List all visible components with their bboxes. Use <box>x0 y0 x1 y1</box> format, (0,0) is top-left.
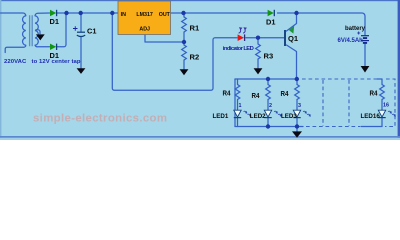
junction node ADJ / R1 / R2 <box>182 40 186 44</box>
resistor R2 <box>182 45 187 60</box>
branch 2 R4 top lead <box>267 79 269 85</box>
svg-text:D1: D1 <box>50 17 59 26</box>
resistor R4 branch3 <box>295 85 300 100</box>
transistor Q1 emitter arrow (PNP, pointing into base) <box>289 26 294 34</box>
wire transformer primary bottom to 220VAC terminal <box>5 45 26 52</box>
LED2 emission arrows <box>274 111 281 115</box>
LED1 symbol <box>234 110 241 117</box>
transformer T1 primary winding <box>23 16 26 45</box>
svg-text:D1: D1 <box>266 18 275 27</box>
junction node rectified rail / D1 bottom <box>64 11 68 15</box>
dashed right edge <box>385 79 395 127</box>
svg-text:LM317: LM317 <box>136 12 153 18</box>
ground arrow at center tap <box>36 34 45 40</box>
battery BT1 plus mark <box>357 32 360 35</box>
transformer T1 core <box>30 15 33 46</box>
diode D1 bottom rectifier <box>50 44 57 50</box>
wire battery negative down to ground <box>364 44 366 67</box>
svg-text:R4: R4 <box>370 89 378 98</box>
wire D1 bottom output up to rectified node <box>58 13 67 47</box>
junction node R1 top <box>181 11 185 15</box>
svg-text:R2: R2 <box>190 53 200 62</box>
LED16 symbol <box>378 110 385 117</box>
branch 16 LED16 to bottom rail <box>361 118 382 127</box>
ground arrow below C1 <box>77 68 86 74</box>
capacitor C1 plus mark <box>73 26 78 30</box>
indicator LED emission arrows <box>239 29 246 33</box>
junction node branch3 top <box>295 77 299 81</box>
svg-text:R4: R4 <box>252 91 260 100</box>
diode D1 series to battery <box>268 10 275 16</box>
junction node branch2 bottom <box>266 124 270 128</box>
junction node R3 / LED / base <box>256 36 260 40</box>
svg-text:LED2: LED2 <box>250 113 266 120</box>
dashed bottom rail <box>306 126 360 128</box>
junction node branch3 bottom / ground <box>295 124 299 128</box>
LED3 symbol <box>293 110 300 117</box>
wire R3 bottom to ground arrow <box>257 59 259 68</box>
resistor R1 <box>182 17 187 32</box>
LED2 symbol <box>264 110 271 117</box>
branch 16 R4 to LED16 lead <box>381 100 383 111</box>
regulator U1 LM317 body <box>118 1 171 35</box>
branch 1 R4 top lead <box>237 79 239 85</box>
svg-text:C1: C1 <box>87 27 96 36</box>
capacitor C1 <box>77 32 85 36</box>
LED16 emission arrows <box>388 111 395 115</box>
branch 2 LED2 to bottom rail <box>267 118 269 127</box>
indicator LED (red) <box>238 34 245 41</box>
svg-text:6V/4.5Ah: 6V/4.5Ah <box>338 38 364 44</box>
transformer T1 secondary winding <box>35 16 38 45</box>
dashed branch column B <box>348 80 350 126</box>
wire secondary bottom to diode D1 bottom <box>35 45 50 47</box>
resistor R4 branch1 <box>235 85 240 100</box>
wire LM317 OUT rail to battery corner <box>171 12 268 14</box>
junction node Q1 collector rail <box>294 11 298 15</box>
svg-text:simple-electronics.com: simple-electronics.com <box>33 113 167 125</box>
svg-text:R4: R4 <box>281 89 289 98</box>
branch 1 LED1 to bottom rail <box>237 118 239 127</box>
svg-text:OUT: OUT <box>159 12 171 18</box>
ground arrow below R3 <box>254 68 263 74</box>
svg-text:ADJ: ADJ <box>139 27 150 33</box>
svg-text:indicator LED: indicator LED <box>223 46 254 52</box>
wire R3 top lead <box>257 38 259 44</box>
svg-text:LED1: LED1 <box>213 113 229 120</box>
svg-text:battery: battery <box>345 26 366 32</box>
wire LM317 ADJ pin down and right to R1/R2 junction <box>145 35 184 43</box>
svg-text:LED16: LED16 <box>361 113 381 120</box>
svg-text:IN: IN <box>121 12 126 18</box>
wire rectified rail D1 to LM317 IN <box>58 12 119 14</box>
diode D1 top rectifier <box>50 10 57 16</box>
dashed top rail <box>302 78 377 80</box>
junction node C1 tap <box>79 11 83 15</box>
dashed continuation of LED array enclosure <box>302 79 395 127</box>
border frame <box>0 0 400 1</box>
svg-text:Q1: Q1 <box>288 34 299 43</box>
branch 3 R4 top lead <box>296 79 298 85</box>
LED1 emission arrows <box>244 111 251 115</box>
svg-text:R3: R3 <box>264 52 274 61</box>
svg-text:R1: R1 <box>190 24 200 33</box>
LED array box solid bottom-left rail <box>235 126 303 128</box>
ground arrow below battery <box>361 66 370 73</box>
wire C1 top lead <box>80 13 82 31</box>
LED3 emission arrows <box>303 111 310 115</box>
branch 2 R4 to LED2 lead <box>267 100 269 111</box>
wire Q1 emitter down to LED array rail <box>287 45 297 79</box>
svg-text:1: 1 <box>239 103 242 109</box>
junction node unregulated loop tap <box>110 11 114 15</box>
branch 3 LED3 to bottom rail <box>296 118 298 127</box>
ground arrow below LED array <box>292 131 302 137</box>
LED array box solid left edge <box>234 79 236 127</box>
wire R2 bottom to ground arrow <box>183 60 185 69</box>
svg-text:16: 16 <box>383 103 389 109</box>
dashed branch column A <box>322 80 324 126</box>
branch 1 R4 to LED1 lead <box>237 100 239 111</box>
branch 3 R4 to LED3 lead <box>296 100 298 111</box>
wire R1 bottom to R2 top junction <box>183 32 185 45</box>
ground arrow below R2 <box>180 69 189 75</box>
resistor R3 <box>256 44 261 59</box>
wire secondary top to diode D1 top <box>35 13 50 16</box>
branch 16 top feed from dashed rail <box>377 79 382 85</box>
wire unregulated tap loop: from IN node down, across and up to indicator branch <box>112 13 237 90</box>
battery BT1 cells <box>361 36 369 43</box>
resistor R4 branch2 <box>266 85 271 100</box>
wire R1 top lead <box>183 13 185 17</box>
LED array box solid top-left rail <box>235 78 297 80</box>
transistor Q1 base bar <box>284 30 286 46</box>
svg-text:2: 2 <box>269 103 272 109</box>
svg-text:R4: R4 <box>223 89 231 98</box>
wire after series diode D1 to battery <box>278 13 366 35</box>
wire Q1 collector up to rail junction <box>287 13 297 31</box>
wire C1 bottom lead to ground <box>80 37 82 69</box>
wire bottom rail ground stem <box>296 127 298 132</box>
wire AC live top-left to transformer primary <box>1 13 26 16</box>
wire indicator LED cathode to R3/base node <box>246 37 284 39</box>
svg-text:220VAC to 12V center tap: 220VAC to 12V center tap <box>4 59 81 65</box>
junction node branch2 top <box>266 77 270 81</box>
wire center tap lead <box>36 30 41 35</box>
resistor R4 branch16 <box>380 85 385 100</box>
svg-text:LED3: LED3 <box>281 113 297 120</box>
svg-text:3: 3 <box>298 103 301 109</box>
